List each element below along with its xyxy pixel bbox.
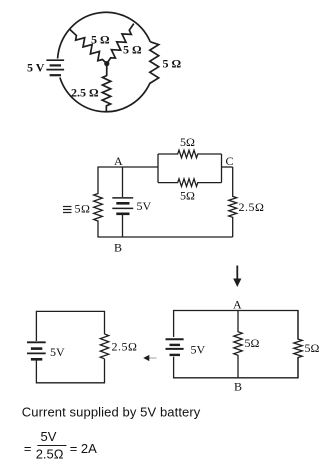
svg-text:5 Ω: 5 Ω (163, 57, 182, 71)
resistor 5Ω (figure 1, on right arc of circle) (148, 42, 158, 86)
wire: top wire from above left resistor to parallel box (figure 2) (97, 166, 158, 168)
resistor 5Ω (figure 4, middle vertical branch A-B) (234, 311, 242, 378)
svg-text:Current supplied by 5V battery: Current supplied by 5V battery (22, 405, 201, 420)
svg-text:B: B (114, 241, 122, 255)
svg-text:2.5 Ω: 2.5 Ω (71, 86, 99, 100)
svg-text:=: = (24, 441, 32, 456)
battery V3 5V (figure 3, left side) (27, 342, 46, 359)
svg-text:2.5Ω: 2.5Ω (112, 340, 138, 354)
wire: from box right side to 2.5Ω branch (figure 2) (222, 166, 233, 168)
svg-text:5 Ω: 5 Ω (123, 43, 142, 57)
svg-text:5V: 5V (137, 199, 152, 213)
wire: bottom wire (figure 2) (97, 236, 232, 238)
svg-text:5Ω: 5Ω (75, 202, 91, 216)
resistor 2.5Ω (figure 1, vertical from Y node to bottom of circle) (102, 64, 111, 112)
resistor 5Ω (figure 2, top branch of parallel box) (158, 150, 222, 158)
svg-text:2.5Ω: 2.5Ω (239, 200, 265, 214)
svg-text:A: A (233, 298, 242, 312)
svg-text:2.5Ω: 2.5Ω (36, 447, 64, 462)
svg-text:= 2A: = 2A (70, 441, 97, 456)
text: equation = 5V/2.5Ω = 2A (24, 429, 97, 462)
resistor 2.5Ω (figure 3, right side) (100, 334, 108, 359)
svg-text:5Ω: 5Ω (245, 336, 260, 350)
resistor 5Ω (figure 1 top-right arm of Y) (107, 24, 134, 64)
svg-text:5V: 5V (41, 429, 57, 444)
svg-text:C: C (226, 154, 234, 168)
wire: circle top arc (from battery to right resistor, figure 1) (58, 12, 151, 58)
wire: parallel-box right vertical (figure 2) (221, 154, 223, 183)
svg-text:5Ω: 5Ω (180, 135, 195, 149)
resistor 5Ω (figure 2, bottom branch of parallel box) (158, 179, 222, 187)
battery V4 5V (figure 4, left side) (166, 339, 184, 355)
wire: circle bottom arc (from right resistor to battery, figure 1) (60, 78, 148, 112)
svg-text:B: B (234, 380, 242, 394)
svg-text:5Ω: 5Ω (305, 341, 320, 355)
arrow: leftward arrow between figure 4 and figure 3 (143, 355, 156, 361)
node: Y-junction dot (figure 1 center) (104, 61, 109, 66)
svg-text:A: A (114, 154, 123, 168)
svg-text:5 V: 5 V (27, 61, 45, 75)
svg-text:5V: 5V (191, 343, 206, 357)
battery V2 5V (figure 2) (112, 198, 133, 214)
svg-text:5 Ω: 5 Ω (91, 33, 110, 47)
wire: parallel-box left vertical (figure 2) (157, 154, 159, 183)
wire: rectangle loop (figure 3) (36, 311, 104, 382)
wire: from node A down to battery top (figure 2) (122, 167, 124, 197)
label ≡ (equivalence sign, figure 2) (63, 207, 72, 213)
resistor 5Ω (figure 2, left vertical) (94, 167, 103, 237)
resistor 5Ω (figure 1 top-left arm of Y) (70, 29, 107, 63)
battery V1 5V (figure 1, on left arc) (46, 60, 64, 75)
svg-text:5Ω: 5Ω (180, 189, 195, 203)
resistor 5Ω (figure 4, right side) (294, 311, 302, 378)
arrow: downward arrow between figure 2 and figures 3/4 (233, 266, 241, 288)
wire: from battery bottom to bottom wire (figure 2) (122, 215, 124, 237)
wire: rectangle loop (figure 4) (174, 311, 298, 378)
resistor 2.5Ω (figure 2, right vertical) (229, 167, 237, 237)
svg-text:5V: 5V (50, 345, 65, 359)
